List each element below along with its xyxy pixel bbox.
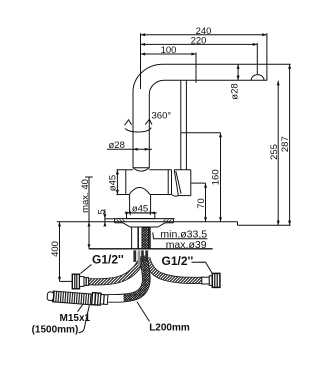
- threaded shank thread section: [142, 228, 149, 249]
- spout bend outer curve: [133, 64, 163, 92]
- body bottom saddle arc over neck: [129, 187, 150, 194]
- G12 fitting right nut facets: [215, 273, 217, 287]
- dimension 70 line: [205, 183, 207, 222]
- dimension 240 line: [141, 34, 267, 36]
- svg-text:287: 287: [280, 136, 291, 152]
- svg-text:5: 5: [96, 209, 107, 214]
- shank connector bar right: [145, 250, 148, 262]
- pipe bottom arc: [133, 168, 149, 171]
- svg-text:max. 40: max. 40: [80, 179, 91, 213]
- base plate hatch left: [117, 219, 126, 222]
- left supply hose braid: [89, 262, 141, 282]
- svg-text:G1/2'': G1/2'': [162, 254, 194, 268]
- corrugated hose section: [47, 291, 93, 305]
- svg-text:(1500mm): (1500mm): [32, 325, 79, 336]
- dimension phi28 arm vertical line: [237, 64, 239, 80]
- extension line right 240: [266, 33, 268, 80]
- base plate hatch right: [163, 219, 172, 222]
- countertop extension step: [237, 222, 239, 225]
- wand tube right edge: [185, 80, 187, 170]
- threaded shank outer left: [131, 227, 133, 249]
- svg-text:max.ø39: max.ø39: [166, 239, 207, 251]
- svg-text:400: 400: [50, 241, 61, 257]
- handle nozzle inner slant: [176, 171, 181, 194]
- handle nozzle left slant: [174, 170, 178, 196]
- dimension 400 line: [59, 222, 61, 282]
- spout arm bottom line: [165, 79, 267, 81]
- threaded shank tube wall left: [137, 227, 139, 249]
- arrows phi28 arm: [237, 64, 240, 69]
- dimension phi45 body line: [116, 170, 118, 195]
- neck left edge: [129, 195, 131, 213]
- arrows 255: [277, 81, 280, 86]
- arrows phi45 base: [126, 211, 131, 214]
- svg-text:G1/2'': G1/2'': [92, 253, 124, 267]
- dimension phi45 body ticks: [117, 170, 126, 195]
- base ring: [127, 213, 155, 219]
- arrows phi28 riser: [133, 148, 138, 151]
- handle nozzle top: [174, 169, 191, 171]
- G12 fitting left small facet: [85, 278, 87, 286]
- G12 fitting right tube: [202, 277, 210, 284]
- leader G12 right: [192, 262, 213, 274]
- arrows max40: [88, 222, 91, 227]
- base plate boss bottom: [130, 226, 158, 228]
- pipe bottom joint line: [133, 167, 149, 169]
- dimension phi45 base line: [125, 212, 157, 214]
- dimension max40 line: [88, 177, 90, 249]
- G12 fitting right collar: [209, 276, 212, 286]
- body right cap line 1: [167, 170, 169, 195]
- svg-text:360°: 360°: [152, 110, 172, 121]
- faucet riser pipe right edge: [148, 94, 150, 168]
- dimension phi28 riser line: [107, 148, 152, 150]
- countertop bottom line: [89, 248, 213, 250]
- shank connector bar left: [133, 250, 136, 262]
- svg-text:ø45: ø45: [132, 203, 148, 214]
- svg-text:L200mm: L200mm: [149, 323, 190, 334]
- arrows 220: [141, 43, 146, 46]
- body top line: [126, 169, 133, 171]
- threaded shank outer right: [149, 227, 151, 249]
- extension line right 220: [256, 43, 258, 74]
- body left cap: [125, 170, 127, 195]
- pull-out spray hose: [108, 256, 146, 298]
- wand tube left edge: [180, 80, 182, 170]
- spout end dome: [251, 75, 264, 81]
- dimension 255 line: [277, 81, 279, 226]
- dimension 5 line: [104, 209, 106, 225]
- G12 fitting left nut: [72, 274, 79, 289]
- base plate top line: [114, 218, 175, 220]
- G12 fitting left nut facets: [75, 274, 77, 289]
- base plate wing bottom right: [165, 222, 173, 224]
- spout bend inner curve: [149, 80, 164, 94]
- arrows 400: [58, 222, 61, 227]
- countertop surface line: [57, 221, 238, 223]
- svg-text:255: 255: [269, 144, 280, 160]
- base plate right slant: [158, 223, 165, 227]
- svg-text:70: 70: [196, 198, 207, 209]
- arrows phi45 body: [116, 170, 119, 175]
- leader G12 left: [81, 265, 92, 274]
- right supply hose braid: [147, 258, 203, 280]
- dimension 287 line: [289, 64, 291, 225]
- arrows 70: [204, 183, 207, 188]
- arrowheads: [58, 33, 291, 281]
- base plate right edge: [172, 219, 174, 223]
- G12 fitting left small: [84, 278, 89, 286]
- rotation arc 360: [125, 128, 151, 132]
- leader L200: [137, 302, 150, 322]
- G12 fitting left mid: [80, 277, 85, 287]
- svg-text:160: 160: [211, 169, 222, 185]
- dimension 160 line: [220, 133, 222, 222]
- base plate wing bottom left: [115, 222, 123, 224]
- svg-text:ø28: ø28: [229, 83, 240, 99]
- body bottom line right segment: [150, 194, 172, 196]
- handle nozzle bottom: [178, 195, 190, 197]
- arrows 100: [141, 53, 146, 56]
- svg-text:ø45: ø45: [108, 175, 119, 191]
- countertop extension line right: [238, 224, 291, 226]
- svg-text:M15x1: M15x1: [60, 313, 91, 324]
- svg-text:220: 220: [191, 36, 207, 47]
- dimension 160 extension: [181, 132, 221, 134]
- arrows 160: [219, 133, 222, 138]
- arrows 240: [141, 33, 146, 36]
- G12 fitting right nut: [212, 273, 220, 287]
- dimension 70 extension: [191, 182, 205, 184]
- dimension max40 top tick: [85, 176, 93, 178]
- shank connector bar mid: [141, 250, 144, 263]
- base plate left edge: [114, 219, 116, 223]
- shank connector tube gray: [138, 250, 141, 265]
- neck right edge: [150, 195, 152, 213]
- body top line right of pipe: [149, 169, 171, 171]
- rotation arrow right: [145, 119, 152, 124]
- dimension 100 line: [141, 53, 197, 55]
- min hole leader line: [153, 232, 208, 238]
- rotation arrow left: [125, 120, 132, 125]
- leader M15: [78, 304, 84, 312]
- svg-text:ø28: ø28: [109, 140, 125, 151]
- threaded shank thread right wall: [148, 227, 150, 249]
- svg-text:100: 100: [161, 45, 177, 56]
- M15 fitting nut: [92, 293, 108, 306]
- leader 1500 hook: [79, 305, 90, 333]
- dimension 400 bottom extension: [60, 280, 73, 282]
- dimension 220 line: [141, 43, 258, 45]
- base plate left slant: [123, 223, 130, 227]
- extension line left at pipe axis: [140, 33, 142, 89]
- body bottom line left segment: [126, 194, 129, 196]
- arrows 5: [103, 214, 106, 219]
- extension line right 100: [195, 53, 197, 83]
- spout arm top line and 287 extension: [163, 63, 291, 65]
- hoses: [89, 256, 203, 298]
- handle nozzle right edge: [190, 170, 192, 196]
- body to nozzle connector arc: [172, 194, 178, 197]
- faucet riser pipe left edge: [132, 92, 134, 168]
- dimension 5 tick: [105, 218, 114, 220]
- body right cap line 2: [171, 170, 173, 195]
- arrows 287: [288, 64, 291, 69]
- dimension phi45 base ticks: [130, 211, 150, 215]
